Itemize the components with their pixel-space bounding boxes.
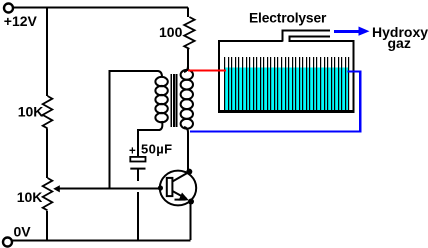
svg-text:50µF: 50µF: [141, 142, 173, 157]
wire red: primary top to electrolyser left plate: [188, 69, 226, 71]
transformer T1 primary winding (right coil): [181, 66, 193, 132]
potentiometer wiper arrow: [53, 185, 60, 192]
wire left bus from +12V rail to 10K: [46, 8, 48, 97]
wire base line from pot wiper to transistor base: [57, 188, 160, 190]
wire bottom 0V rail: [12, 240, 191, 242]
svg-text:Electrolyser: Electrolyser: [249, 10, 327, 25]
wire feedback winding top over to left then down to base line: [110, 71, 159, 188]
wire top rail corner down to 100 ohm resistor: [187, 8, 189, 18]
svg-text:10K: 10K: [18, 104, 44, 120]
electrolyser plates: [224, 57, 349, 110]
transformer core: [171, 74, 176, 127]
wire pot bottom to 0V rail: [46, 211, 48, 240]
potentiometer VR1 10K: [43, 178, 53, 210]
resistor R1 10K: [43, 96, 53, 128]
electrolyte (cyan): [224, 68, 348, 111]
node collector junction dot: [186, 169, 192, 175]
node emitter junction dot: [188, 199, 194, 205]
svg-text:100: 100: [159, 24, 183, 40]
svg-text:0V: 0V: [14, 224, 32, 240]
arrow hydroxy gas output (blue): [334, 27, 370, 36]
wire blue: electrolyser right plate down to collector: [190, 72, 360, 132]
electrolyser tank: [218, 40, 355, 113]
node base junction dot: [158, 185, 163, 190]
svg-text:+12V: +12V: [4, 13, 38, 29]
transistor Q1: [160, 171, 196, 206]
svg-text:+: +: [129, 146, 136, 158]
svg-text:gaz: gaz: [388, 35, 411, 51]
wire 100 ohm to transformer primary top: [187, 49, 189, 71]
terminal +12V: [4, 4, 13, 13]
electrolyser outlet pipe (outer wall): [283, 31, 330, 42]
transformer T1 feedback winding (left coil): [155, 71, 167, 130]
wire feedback winding bottom to capacitor top: [138, 130, 160, 157]
wire top rail: [13, 7, 188, 9]
wire collector up to transformer primary bottom: [187, 132, 189, 171]
wire capacitor bottom to 0V rail (hops over base line): [137, 192, 139, 240]
svg-text:10K: 10K: [17, 189, 43, 205]
wire emitter down to 0V rail: [190, 202, 192, 240]
wire between 10K and potentiometer: [46, 128, 48, 178]
electrolyser outlet pipe (inner wall): [290, 37, 331, 42]
capacitor C1 50uF: [130, 157, 145, 181]
terminal 0V: [3, 238, 12, 247]
resistor R2 100: [184, 17, 194, 49]
